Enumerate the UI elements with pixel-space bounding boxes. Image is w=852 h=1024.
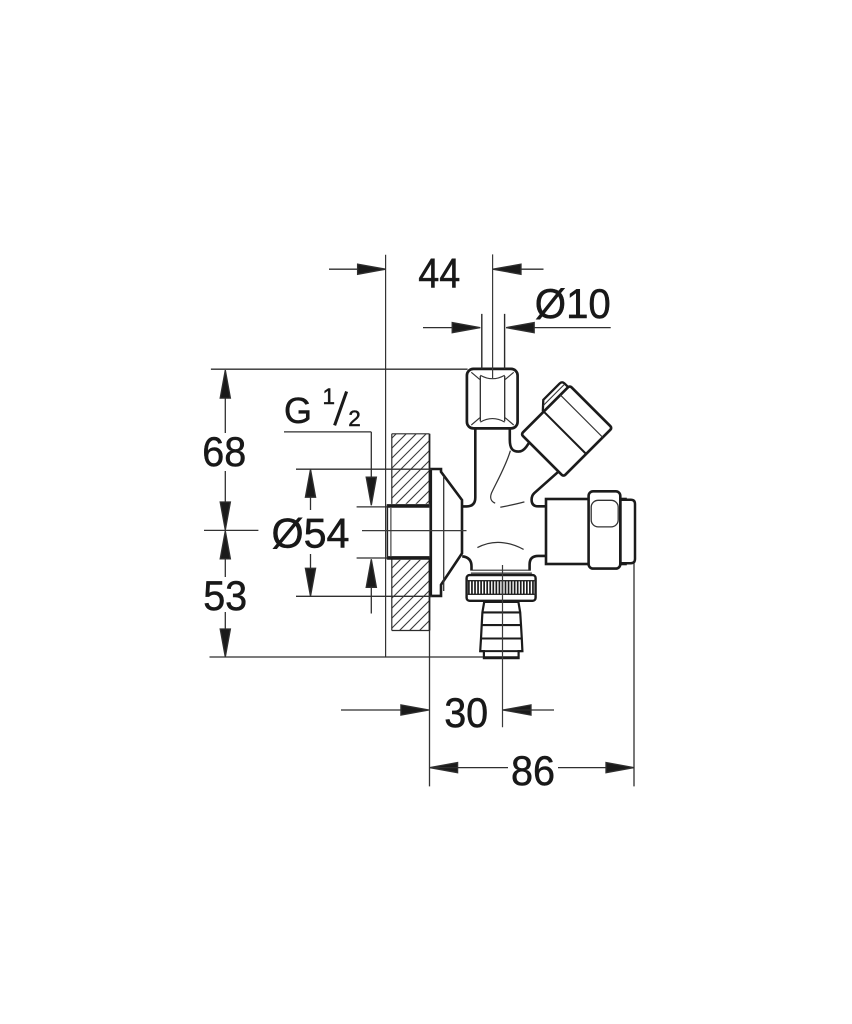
dim 68 shaft upper [224,398,226,433]
dim 30 tail right [503,709,554,711]
wall surface extension line (30/86 dims) [429,631,431,787]
thread top extension [357,506,388,508]
left port centerline [362,530,467,532]
dim 53 shaft upper [224,559,226,577]
dia54 extension bottom [296,595,432,597]
dim 53 arrow down [220,629,230,657]
dia54 shaft upper [310,497,312,510]
dim 44 arrow left [358,264,386,274]
escutcheon inner edge [443,476,445,591]
dim 86 arrow left [430,763,458,773]
dim 68 shaft lower [224,471,226,503]
valve body: top neck right J-curve [510,428,529,451]
knurled ring [467,575,536,601]
finished-surface reference line (44 dim) [385,255,387,657]
G1/2 arrow up to thread bottom [366,559,376,587]
inlet pipe lines [482,314,505,369]
diagonal backflow fitting [515,379,612,476]
escutcheon flange [431,469,462,596]
dim 53 shaft lower [224,612,226,630]
G1/2 leader horizontal [284,431,371,433]
internal flow curve right [500,502,524,507]
valve body: bottom neck left [462,556,471,570]
right outlet swivel nut [589,491,621,568]
hose barb [480,602,522,658]
bottom port centerline [502,565,504,727]
left port centerline tick at dim line [204,529,258,531]
svg-text:53: 53 [203,572,247,619]
dim 68 arrow up [220,370,230,398]
dim dia10 line left [423,327,480,329]
dim dia10 arrow right [506,323,534,333]
extension line right of outlet [633,564,635,787]
dia54 extension top [296,468,432,470]
svg-text:68: 68 [202,428,246,475]
dim 30 tail left [341,709,401,711]
hex nut top inlet [467,369,518,429]
valve body: bottom neck right [530,556,546,571]
extension line top of valve [211,368,468,370]
svg-text:Ø10: Ø10 [535,280,611,327]
valve body: top neck left [462,428,475,506]
thread bottom extension [357,557,388,559]
dim 44 line left [329,268,386,270]
G1/2 arrow down to thread top [366,477,376,505]
dia54 arrow up [305,469,315,497]
dim 86 line right [558,767,634,769]
dim 30 arrow right [503,705,531,715]
dia54 shaft lower [310,554,312,569]
right outlet end cap [620,500,635,564]
svg-text:G: G [284,390,312,431]
dim 86 arrow right [606,763,634,773]
right outlet body [546,499,626,564]
valve body: diagonal neck right edge [532,471,559,506]
dim 44 arrow right [493,264,521,274]
bottom outlet washer lines [471,570,532,573]
G1/2 lower shaft [370,587,372,613]
extension line bottom (hose end level) [210,656,484,658]
fraction slash [335,392,347,426]
internal flow curve upper [491,451,511,504]
svg-text:86: 86 [511,747,555,794]
dim 86 line left [430,767,508,769]
dia54 arrow down [305,568,315,596]
svg-text:2: 2 [348,406,361,431]
dim 53 arrow up [220,531,230,559]
dim 44 line right [493,268,544,270]
swivel nut inner face [591,500,618,527]
svg-text:30: 30 [444,689,488,736]
wall hatch [180,420,640,640]
wall outline [392,434,430,631]
wall surface line [429,434,431,631]
svg-text:Ø54: Ø54 [272,509,350,556]
dim dia10 arrow left [452,323,480,333]
dim 30 arrow left [401,705,429,715]
svg-text:1: 1 [323,384,336,409]
dim 68 arrow down [220,502,230,530]
dim dia10 tail right [506,327,611,329]
G1/2 male thread [387,504,429,560]
internal flow dome [477,542,523,549]
top port centerline [492,254,494,378]
svg-text:44: 44 [418,249,460,296]
G1/2 leader vertical [370,432,372,478]
